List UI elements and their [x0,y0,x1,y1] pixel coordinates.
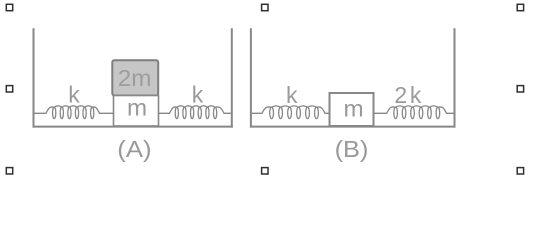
svg-text:k: k [286,82,298,108]
svg-text:(A): (A) [117,136,151,162]
svg-text:m: m [344,96,364,121]
svg-text:(B): (B) [335,136,369,162]
svg-text:2: 2 [394,82,407,108]
svg-text:m: m [127,95,147,120]
svg-text:2m: 2m [118,65,152,91]
svg-text:k: k [192,81,204,107]
svg-text:k: k [68,81,80,107]
svg-text:k: k [410,82,422,108]
